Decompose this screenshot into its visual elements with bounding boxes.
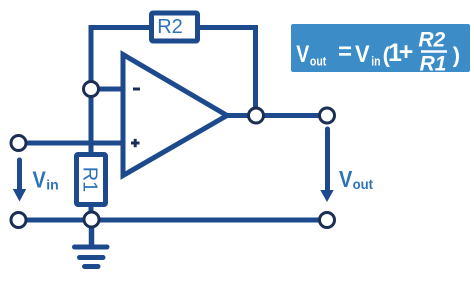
svg-text:V: V	[339, 166, 353, 192]
wire: bottom ground rail	[19, 218, 328, 223]
svg-text:V: V	[355, 41, 370, 68]
svg-text:in: in	[371, 54, 380, 69]
resistor R2	[152, 13, 198, 41]
node: bottom-right terminal	[320, 213, 335, 228]
arrow: Vout direction	[320, 129, 333, 202]
wire: non-inverting input from Vin terminal to op-amp	[19, 141, 124, 146]
op-amp non-inverting pin label (+)	[131, 142, 140, 145]
formula box: Vout = Vin (1 + R2/R1)	[291, 24, 470, 76]
svg-text:V: V	[296, 41, 309, 68]
svg-text:=: =	[338, 39, 352, 66]
svg-text:R1: R1	[79, 167, 101, 193]
svg-text:): )	[453, 43, 460, 68]
ground	[75, 228, 108, 267]
node: ground junction	[84, 212, 99, 227]
node: Vout terminal	[320, 108, 335, 123]
resistor R1	[77, 155, 106, 205]
svg-text:R1: R1	[420, 53, 447, 76]
svg-text:R2: R2	[418, 29, 445, 52]
svg-text:in: in	[46, 177, 58, 193]
svg-text:V: V	[33, 167, 47, 193]
op-amp U1	[123, 55, 227, 176]
svg-text:R2: R2	[157, 16, 183, 38]
wire: output to Vout terminal	[227, 113, 327, 118]
node: bottom-left terminal	[11, 213, 26, 228]
node: Vin terminal	[11, 136, 26, 151]
arrow: Vin direction	[13, 160, 26, 202]
svg-text:out: out	[310, 54, 327, 69]
wire: feedback loop through R2	[91, 28, 256, 116]
op-amp inverting pin label (-)	[133, 88, 140, 91]
wire: R1 branch from inverting node down to rail	[89, 89, 94, 220]
svg-text:out: out	[353, 176, 374, 192]
node: op-amp output junction	[249, 108, 264, 123]
svg-text:+: +	[399, 38, 414, 66]
wire: inverting input stub	[91, 87, 123, 92]
node: inverting input junction	[84, 82, 99, 97]
